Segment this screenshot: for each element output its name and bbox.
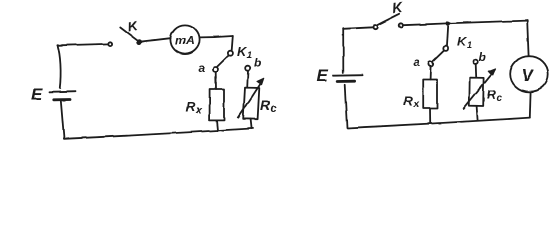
svg-text:x: x <box>195 105 202 116</box>
wire: battery bottom to bottom-left corner (right) <box>345 85 347 128</box>
switch K hinge circle (right) <box>373 25 377 29</box>
switch K hinge circle <box>108 42 112 46</box>
wire: Rc bottom to bottom wire <box>251 119 252 129</box>
battery E long plate (left) <box>50 91 76 94</box>
svg-text:a: a <box>413 55 420 69</box>
switch K contact dot <box>138 40 141 43</box>
svg-text:R: R <box>404 93 414 108</box>
svg-text:1: 1 <box>467 40 472 50</box>
wire: Rx bottom to bottom wire (right) <box>429 109 431 124</box>
svg-text:1: 1 <box>247 50 252 60</box>
svg-text:a: a <box>198 61 205 75</box>
wire: corner down to K1 hinge <box>232 36 233 50</box>
rheostat Rc box (right) <box>469 78 483 106</box>
svg-text:c: c <box>497 93 503 104</box>
resistor Rx box (right) <box>423 80 437 109</box>
svg-text:K: K <box>126 18 139 35</box>
svg-text:b: b <box>254 56 261 70</box>
wire: a to Rx top <box>215 72 217 89</box>
wire: contact dot to milliammeter <box>141 38 170 41</box>
switch K1 blade (left) <box>217 56 228 67</box>
wire: top-right corner down to voltmeter <box>527 21 528 56</box>
node a contact circle (right) <box>428 62 433 67</box>
wire: b to Rc top <box>246 71 249 88</box>
wire: junction down to K1 hinge <box>447 23 448 45</box>
wire: left vertical upper (corner to battery) right circuit <box>342 29 344 73</box>
wire: a to Rx top (right) <box>429 67 432 80</box>
battery E short plate (right) <box>337 80 354 83</box>
rheostat Rc box (left) <box>243 88 259 120</box>
rheostat Rc arrow (right) <box>464 72 493 108</box>
wire: top horizontal to switch K <box>343 27 373 29</box>
svg-text:E: E <box>317 66 329 85</box>
rheostat Rc arrow (left) <box>238 82 261 117</box>
svg-text:x: x <box>413 99 420 110</box>
resistor Rx box (left) <box>210 89 224 120</box>
svg-text:R: R <box>186 99 196 114</box>
svg-text:K: K <box>391 0 404 16</box>
switch K1 hinge circle (left) <box>228 51 233 56</box>
svg-text:c: c <box>271 103 277 115</box>
wire: top left horizontal <box>58 44 109 45</box>
wire: b to Rc top (right) <box>475 65 478 78</box>
svg-text:V: V <box>522 66 535 85</box>
battery E short plate (left) <box>54 98 70 101</box>
wire: voltmeter to bottom-right corner <box>529 92 532 118</box>
battery E long plate (right) <box>333 74 363 77</box>
wire: left vertical upper (corner to battery) <box>58 45 61 88</box>
bottom wire (right circuit) <box>347 118 530 128</box>
node a contact circle (left) <box>213 67 218 72</box>
bottom wire (left circuit) <box>64 128 253 138</box>
wire: milliammeter to corner <box>200 36 233 37</box>
switch K contact dot (right) <box>399 23 403 27</box>
switch K blade <box>120 28 139 42</box>
node b contact circle (left) <box>245 66 250 71</box>
svg-text:b: b <box>479 50 486 64</box>
node b contact circle (right) <box>473 60 478 65</box>
svg-text:R: R <box>260 97 271 113</box>
junction node at K1 branch <box>447 22 450 25</box>
switch K1 blade (right) <box>433 51 444 62</box>
voltmeter U2 circle <box>510 56 548 92</box>
wire: top long horizontal to top-right corner <box>403 21 527 26</box>
wire: battery bottom to bottom-left corner <box>61 101 64 139</box>
switch K1 hinge circle (right) <box>443 46 448 51</box>
svg-text:E: E <box>31 85 43 104</box>
milliammeter U1 circle <box>170 25 199 54</box>
svg-text:R: R <box>487 87 497 102</box>
switch K blade (right) <box>378 14 400 25</box>
svg-text:mA: mA <box>175 34 194 48</box>
wire: Rx bottom to bottom wire <box>217 120 218 130</box>
wire: Rc bottom to bottom wire (right) <box>477 106 478 120</box>
